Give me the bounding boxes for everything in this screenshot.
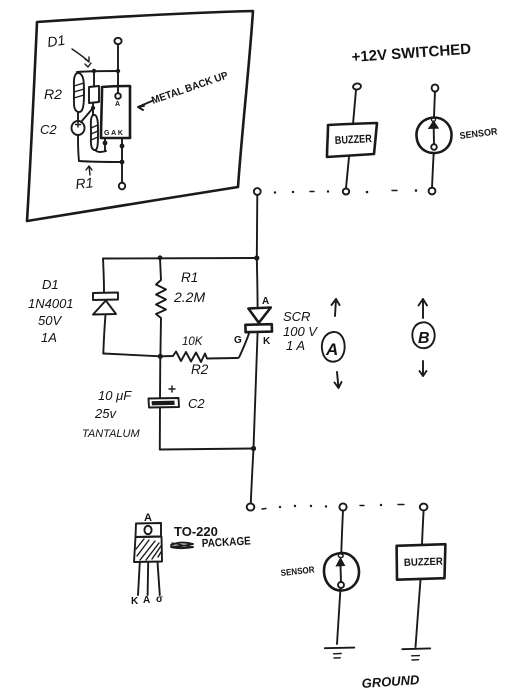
svg-text:C2: C2: [40, 122, 57, 137]
junction: [116, 69, 120, 73]
sensor internal wire: [433, 129, 435, 145]
wire buzzer to rail: [346, 157, 349, 188]
sensor internal wire: [340, 566, 343, 582]
svg-text:TANTALUM: TANTALUM: [82, 428, 140, 440]
wire to bottom terminal: [121, 162, 123, 183]
wire bottom rail of sketch: [79, 161, 122, 162]
ground right: [402, 647, 430, 650]
sketch box frame: [27, 11, 253, 221]
SCR triangle: [248, 308, 270, 323]
wire top rail: [103, 257, 257, 260]
buzzer box: [327, 123, 377, 157]
svg-text:BUZZER: BUZZER: [335, 133, 373, 147]
leg G: [158, 562, 160, 595]
svg-text:K: K: [263, 336, 271, 347]
sensor bottom terminal: [429, 188, 436, 195]
scribbled out word: [171, 543, 193, 549]
wire R2 oval to C2: [77, 112, 79, 122]
sensor terminal: [339, 503, 346, 510]
package left leg: [104, 138, 106, 151]
SCR bar: [245, 324, 272, 332]
svg-text:D1: D1: [46, 32, 66, 50]
dotted rail segment dots: [274, 191, 276, 193]
arrow up A: [332, 299, 340, 316]
svg-text:1 A: 1 A: [286, 338, 305, 353]
sensor top terminal: [432, 84, 439, 91]
wire junction to C2: [81, 108, 93, 122]
wire D1 bottom: [103, 315, 105, 354]
buzzer terminal: [420, 504, 428, 511]
wire bottom rail: [161, 449, 254, 450]
capacitor C2 body: [149, 398, 180, 408]
plus sign: [169, 386, 175, 392]
svg-text:10K: 10K: [182, 336, 204, 348]
wire D1 branch top: [103, 259, 104, 293]
junction bottom rail: [251, 446, 256, 451]
arrow to package: [138, 101, 152, 110]
wire buzzer down: [422, 511, 424, 545]
sensor diode triangle: [429, 121, 439, 129]
wire horizontal top: [77, 71, 118, 72]
svg-text:25v: 25v: [94, 406, 117, 421]
ground left: [325, 647, 355, 650]
svg-text:A: A: [143, 595, 150, 606]
junction R1 top: [158, 255, 163, 260]
svg-text:G A K: G A K: [104, 130, 123, 137]
svg-text:1N4001: 1N4001: [28, 296, 74, 311]
bottom terminal circle: [119, 183, 125, 190]
svg-text:1A: 1A: [41, 330, 57, 345]
svg-text:A: A: [262, 296, 269, 307]
wire SCR anode from rail: [256, 258, 259, 308]
arrow from D1 to diode: [72, 49, 89, 62]
wire to sensor: [434, 92, 435, 118]
svg-text:R2: R2: [44, 86, 62, 102]
svg-text:B: B: [418, 330, 430, 347]
circle A: [322, 332, 345, 362]
svg-text:A: A: [115, 101, 120, 108]
svg-text:A: A: [144, 512, 152, 524]
diode D1 triangle: [93, 301, 116, 315]
sensor bottom blob: [431, 144, 437, 150]
junction: [92, 69, 96, 73]
svg-text:SCR: SCR: [283, 309, 310, 324]
svg-text:BUZZER: BUZZER: [404, 556, 444, 569]
wire C2 bottom: [159, 408, 161, 450]
resistor R2 body: [74, 73, 84, 112]
wire SCR cathode down: [254, 332, 258, 449]
resistor R1 zigzag: [156, 258, 166, 356]
bottom terminal: [247, 503, 255, 510]
diode D1 cathode bar: [93, 293, 118, 301]
svg-text:D1: D1: [42, 277, 59, 292]
circle B: [412, 322, 434, 348]
wire main top: [256, 195, 259, 258]
TO-220 body: [134, 537, 162, 563]
wire terminal to node: [117, 45, 119, 72]
arrow up B: [419, 299, 428, 318]
svg-text:R1: R1: [181, 270, 198, 285]
node top terminal: [254, 188, 261, 195]
leg K: [138, 562, 140, 595]
wire node into package: [117, 71, 119, 93]
diode body in sketch: [89, 86, 99, 103]
svg-text:10 μF: 10 μF: [98, 388, 132, 403]
buzzer bottom terminal: [343, 189, 349, 195]
body hatching: [136, 539, 161, 560]
resistor R1 body in sketch: [91, 115, 98, 150]
SCR gate wire: [236, 332, 249, 358]
svg-text:σ: σ: [156, 594, 163, 605]
sensor diode cathode blob: [432, 118, 436, 122]
TO-220 tab hole: [144, 526, 151, 534]
dotted rail dots: [262, 508, 266, 511]
terminal top of box: [114, 38, 121, 44]
svg-text:R2: R2: [191, 362, 209, 377]
buzzer box: [397, 544, 446, 580]
svg-text:100 V: 100 V: [283, 324, 318, 339]
pin A circle: [115, 93, 121, 99]
wire R1 bottom to package leg: [95, 150, 106, 152]
svg-text:K: K: [131, 596, 139, 607]
wire C2 down: [78, 135, 79, 161]
wire sensor down: [341, 511, 343, 554]
wire mid rail: [103, 354, 160, 357]
wire C2 top: [159, 356, 161, 398]
resistor R2 zigzag: [160, 352, 236, 363]
wire junction to R1: [92, 108, 94, 115]
capacitor C2 body: [72, 121, 85, 135]
arrow down B: [420, 361, 427, 376]
wire buzzer to ground: [416, 580, 421, 647]
wire sensor to ground: [337, 588, 341, 644]
junction mid: [158, 354, 163, 359]
sensor diode blob: [338, 554, 343, 558]
wire node to diode: [93, 71, 95, 86]
arrow R1 pointer: [86, 166, 92, 175]
svg-text:A: A: [325, 340, 338, 359]
svg-text:C2: C2: [188, 396, 205, 411]
wire diode to junction: [92, 103, 94, 108]
arrow down A: [335, 372, 342, 388]
wire main bottom: [251, 449, 254, 504]
buzzer top terminal: [352, 83, 361, 91]
wire to buzzer: [353, 90, 356, 124]
leg A: [147, 562, 150, 595]
sensor diode triangle: [336, 558, 344, 566]
svg-text:R1: R1: [75, 174, 94, 192]
svg-text:2.2M: 2.2M: [173, 289, 205, 305]
svg-text:G: G: [234, 335, 242, 346]
package body (metal back up): [101, 86, 130, 138]
package right leg: [121, 138, 123, 162]
wire sensor to rail: [432, 153, 434, 188]
sensor circle: [324, 553, 359, 591]
junction top rail: [254, 255, 259, 260]
TO-220 tab: [136, 523, 162, 537]
sensor circle: [416, 118, 451, 154]
svg-text:50V: 50V: [38, 313, 62, 328]
sensor bottom blob: [338, 582, 344, 588]
